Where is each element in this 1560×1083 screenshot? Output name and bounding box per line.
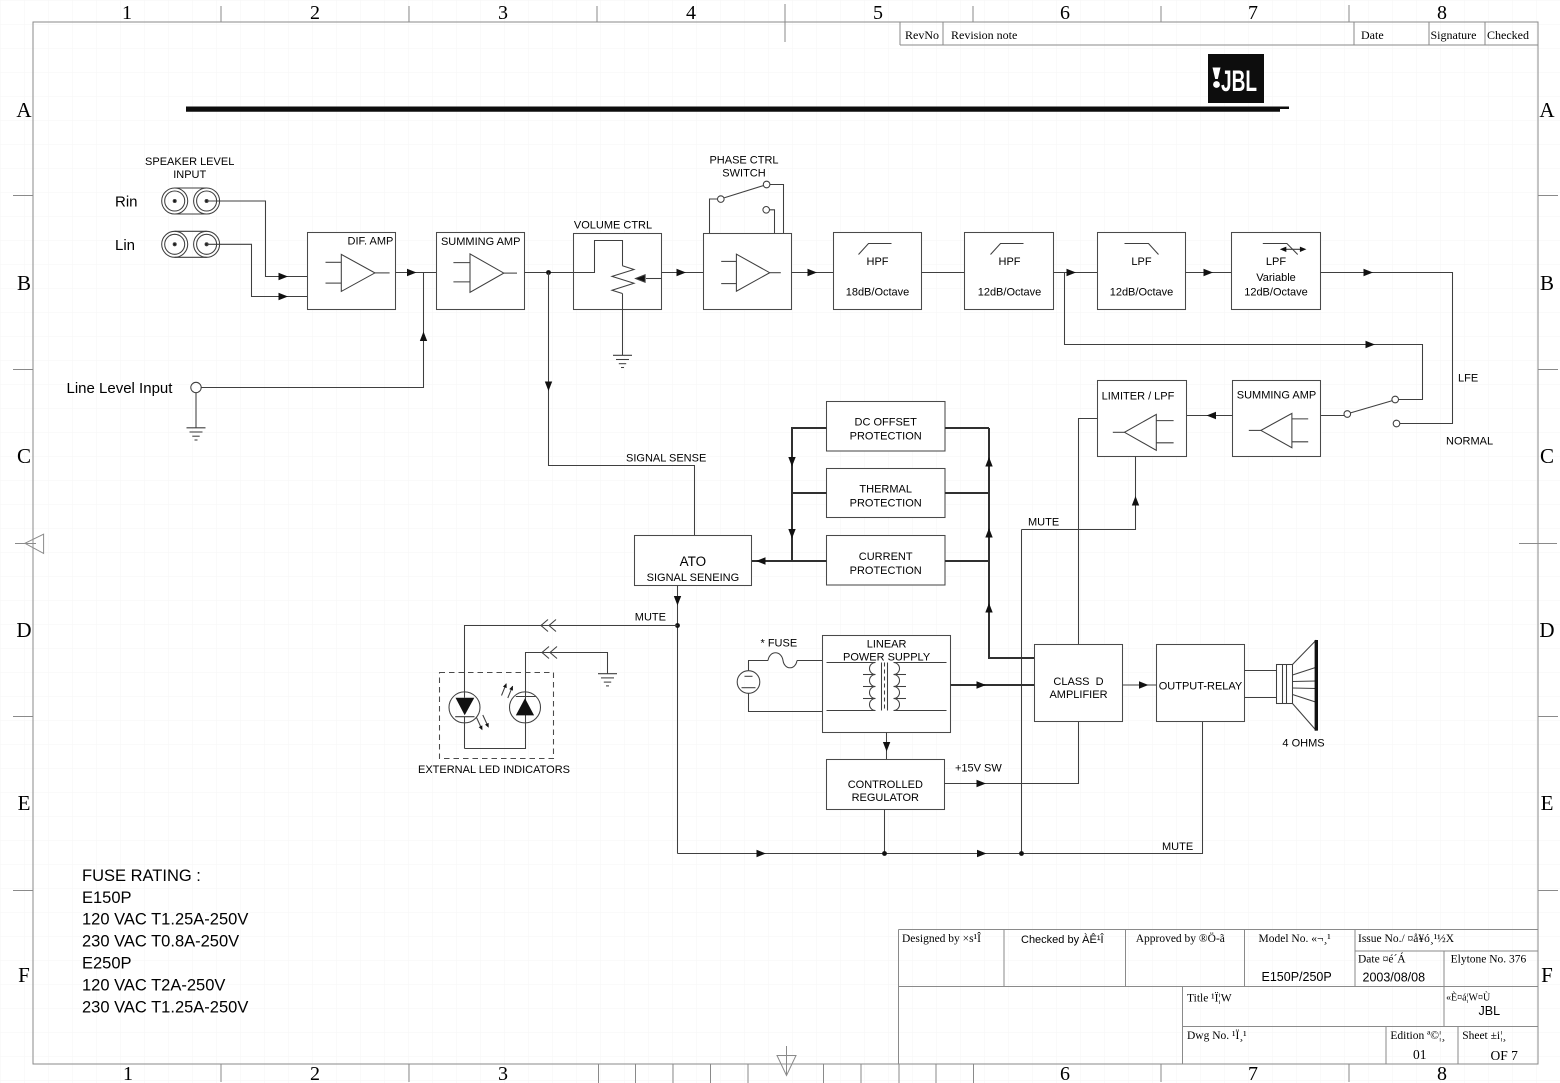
block CURRENT PROTECTION — [827, 536, 946, 586]
wire relay to speaker — [1245, 671, 1277, 698]
svg-text:Checked by ÀÊ¹Î: Checked by ÀÊ¹Î — [1021, 933, 1104, 946]
svg-text:INPUT: INPUT — [173, 169, 206, 181]
svg-text:OUTPUT-RELAY: OUTPUT-RELAY — [1159, 681, 1243, 693]
block SUMMING AMP 2 — [1233, 381, 1321, 457]
svg-text:Signature: Signature — [1431, 28, 1477, 42]
wire +15V SW to CLASS D — [945, 722, 1079, 788]
block THERMAL PROTECTION — [827, 469, 946, 518]
svg-text:E: E — [1541, 791, 1554, 815]
label EXTERNAL LED INDICATORS — [418, 764, 570, 776]
centering mark left triangle — [15, 534, 43, 553]
svg-text:ATO: ATO — [680, 554, 707, 569]
border zone ticks bottom — [221, 1064, 1349, 1083]
wire HPF1 to HPF2 — [922, 272, 965, 274]
block CONTROLLED REGULATOR — [827, 760, 945, 810]
svg-text:120 VAC T2A-250V: 120 VAC T2A-250V — [82, 976, 225, 994]
note FUSE RATING — [82, 867, 248, 1016]
label PHASE CTRL SWITCH — [709, 155, 778, 180]
block OUTPUT-RELAY — [1157, 645, 1245, 722]
LED D2 — [502, 683, 541, 723]
svg-text:120 VAC T1.25A-250V: 120 VAC T1.25A-250V — [82, 911, 248, 929]
svg-text:MUTE: MUTE — [1028, 517, 1059, 529]
row letters left — [16, 98, 32, 987]
switch SW2 LFE/NORMAL — [1321, 396, 1400, 427]
block LPF2 variable — [1232, 233, 1321, 310]
op-amp symbol inside SUMMING AMP — [453, 254, 517, 292]
svg-text:A: A — [1539, 98, 1555, 122]
svg-text:A: A — [16, 98, 32, 122]
label 4 OHMS — [1282, 738, 1324, 750]
svg-text:VOLUME CTRL: VOLUME CTRL — [574, 220, 652, 232]
svg-text:SWITCH: SWITCH — [722, 168, 765, 180]
wire bottom mute bus — [678, 722, 1203, 858]
svg-text:230 VAC T0.8A-250V: 230 VAC T0.8A-250V — [82, 933, 239, 951]
svg-text:MUTE: MUTE — [635, 612, 666, 624]
label Lin — [115, 237, 135, 254]
svg-text:CLASS D: CLASS D — [1053, 676, 1103, 688]
svg-text:1: 1 — [122, 2, 132, 24]
svg-text:+15V SW: +15V SW — [955, 763, 1002, 775]
wire HPF2 branch to LFE contact — [1065, 273, 1423, 400]
wire VOLUME CTRL to PHASE CTRL — [662, 269, 704, 276]
svg-text:Sheet ±i¦¸: Sheet ±i¦¸ — [1462, 1030, 1506, 1042]
svg-text:F: F — [1541, 963, 1553, 987]
block DC OFFSET PROTECTION — [827, 402, 946, 452]
svg-text:2: 2 — [310, 1063, 320, 1083]
node signal junction — [546, 270, 551, 275]
wire MUTE to LED1 — [465, 620, 678, 692]
svg-text:E150P: E150P — [82, 889, 132, 907]
op-amp symbol inside DIF. AMP — [326, 254, 390, 291]
block PHASE CTRL amplifier — [704, 234, 792, 310]
dashed enclosure EXTERNAL LED INDICATORS — [440, 673, 554, 759]
connector RCA pair Lin — [162, 231, 220, 257]
wire protections to ATO — [752, 557, 827, 564]
node regulator bus junction — [882, 851, 887, 856]
block LINEAR POWER SUPPLY — [823, 636, 951, 733]
svg-text:DC OFFSET: DC OFFSET — [855, 417, 918, 429]
centering mark right cross — [1519, 542, 1557, 544]
column numbers bottom — [123, 1063, 1447, 1083]
svg-text:4 OHMS: 4 OHMS — [1282, 738, 1324, 750]
svg-text:NORMAL: NORMAL — [1446, 436, 1493, 448]
wire SUMMING AMP 2 to LIMITER — [1187, 412, 1233, 419]
svg-text:Lin: Lin — [115, 237, 135, 254]
fuse F1 — [749, 653, 823, 671]
svg-text:AMPLIFIER: AMPLIFIER — [1049, 689, 1107, 701]
svg-text:EXTERNAL LED INDICATORS: EXTERNAL LED INDICATORS — [418, 764, 570, 776]
wire regulator to mute bus — [884, 810, 886, 854]
svg-text:SUMMING AMP: SUMMING AMP — [1237, 389, 1316, 401]
svg-text:12dB/Octave: 12dB/Octave — [978, 287, 1042, 299]
svg-text:Issue No./ ¤å¥ó¸¹½X: Issue No./ ¤å¥ó¸¹½X — [1358, 932, 1455, 945]
svg-text:2: 2 — [310, 2, 320, 24]
label SIGNAL SENSE — [626, 453, 706, 465]
border zone ticks top — [221, 4, 1349, 42]
svg-text:OF 7: OF 7 — [1491, 1048, 1519, 1063]
node MUTE junction — [675, 623, 680, 628]
label LFE — [1458, 373, 1478, 385]
label MUTE at ATO — [635, 612, 666, 624]
svg-text:E150P/250P: E150P/250P — [1262, 970, 1332, 984]
svg-text:PROTECTION: PROTECTION — [850, 431, 922, 443]
svg-text:SUMMING AMP: SUMMING AMP — [441, 236, 520, 248]
svg-text:CURRENT: CURRENT — [859, 551, 913, 563]
svg-text:B: B — [17, 271, 31, 295]
wire LPF1 to LPF2 — [1186, 269, 1232, 276]
svg-text:Dwg No. ¹Ï¸¹: Dwg No. ¹Ï¸¹ — [1187, 1028, 1247, 1042]
wire protection right bus to CLASS D — [945, 428, 1035, 658]
svg-text:POWER SUPPLY: POWER SUPPLY — [843, 652, 931, 664]
speaker LS1 — [1277, 640, 1317, 731]
svg-text:4: 4 — [686, 2, 696, 24]
thick header rule — [186, 107, 1289, 112]
wire DIF AMP to SUMMING AMP — [396, 269, 437, 276]
label VOLUME CTRL — [574, 220, 652, 232]
title block texts — [902, 931, 1527, 1063]
wire SIGNAL SENSE from node to ATO — [545, 273, 695, 536]
centering mark bottom triangle — [777, 1046, 796, 1076]
label Rin — [115, 194, 138, 211]
svg-text:PROTECTION: PROTECTION — [850, 498, 922, 510]
wire LIMITER output down to CLASS D input — [1079, 419, 1098, 645]
label MUTE at limiter — [1028, 517, 1059, 529]
svg-text:01: 01 — [1413, 1047, 1427, 1062]
wire Lin to DIF AMP — [207, 244, 308, 300]
svg-text:LPF: LPF — [1131, 256, 1151, 268]
block LIMITER / LPF — [1098, 381, 1187, 457]
ground at LED feed — [598, 674, 617, 686]
svg-text:MUTE: MUTE — [1162, 841, 1193, 853]
svg-text:E: E — [18, 791, 31, 815]
svg-text:8: 8 — [1437, 1063, 1447, 1083]
connector RCA pair Rin — [162, 188, 220, 214]
svg-text:Revision note: Revision note — [951, 28, 1017, 42]
column numbers top — [122, 2, 1447, 24]
wire ATO mute output down — [674, 586, 681, 854]
svg-text:LINEAR: LINEAR — [867, 639, 907, 651]
svg-text:D: D — [1539, 618, 1554, 642]
svg-text:5: 5 — [873, 2, 883, 24]
svg-text:«È¤á¦W¤Ù: «È¤á¦W¤Ù — [1446, 992, 1491, 1004]
arrows on protection right bus — [985, 457, 992, 613]
title block values — [1262, 970, 1501, 1018]
wire LED bottom link — [465, 723, 526, 749]
AC source — [737, 671, 760, 694]
svg-text:Date ¤é´Á: Date ¤é´Á — [1358, 952, 1406, 966]
svg-text:12dB/Octave: 12dB/Octave — [1110, 287, 1174, 299]
revision table — [900, 22, 1538, 45]
border zone ticks left — [13, 196, 33, 891]
revision table headers — [905, 28, 1529, 42]
svg-text:SPEAKER LEVEL: SPEAKER LEVEL — [145, 156, 234, 168]
svg-text:Date: Date — [1361, 28, 1384, 42]
svg-text:Elytone No. 376: Elytone No. 376 — [1451, 954, 1527, 966]
wire MUTE vertical to bottom bus — [1021, 530, 1023, 854]
label +15V SW — [955, 763, 1002, 775]
svg-text:E250P: E250P — [82, 955, 132, 973]
svg-text:PROTECTION: PROTECTION — [850, 565, 922, 577]
svg-text:* FUSE: * FUSE — [761, 638, 798, 650]
switch SW1 phase reverse — [710, 181, 784, 233]
svg-text:CONTROLLED: CONTROLLED — [848, 779, 923, 791]
svg-text:LPF: LPF — [1266, 256, 1286, 268]
svg-text:Approved by ®Ö-ã: Approved by ®Ö-ã — [1136, 931, 1225, 945]
svg-text:Checked: Checked — [1487, 28, 1529, 42]
svg-text:D: D — [16, 618, 31, 642]
svg-text:SIGNAL SENEING: SIGNAL SENEING — [647, 572, 740, 584]
wire PHASE CTRL to HPF1 — [792, 269, 834, 276]
svg-text:RevNo: RevNo — [905, 28, 939, 42]
wire protection left bus — [788, 428, 826, 561]
LED D1 — [449, 692, 489, 749]
terminal Line Level Input — [191, 382, 201, 392]
op-amp symbol inside LIMITER — [1113, 414, 1174, 450]
wire AC source return — [749, 693, 823, 711]
svg-text:PHASE CTRL: PHASE CTRL — [709, 155, 778, 167]
block HPF1 18dB — [834, 233, 922, 310]
svg-text:B: B — [1540, 271, 1554, 295]
svg-text:Line Level Input: Line Level Input — [67, 380, 174, 397]
svg-text:SIGNAL SENSE: SIGNAL SENSE — [626, 453, 706, 465]
ground below VOLUME CTRL — [613, 355, 632, 367]
transformer T1 — [827, 663, 947, 711]
svg-text:Edition ª©¦¸: Edition ª©¦¸ — [1390, 1030, 1445, 1042]
block CLASS D AMPLIFIER — [1035, 645, 1123, 722]
svg-text:HPF: HPF — [867, 256, 889, 268]
svg-text:7: 7 — [1248, 1063, 1258, 1083]
ground at Line Level Input — [187, 393, 206, 440]
block VOLUME CTRL — [574, 234, 662, 310]
block DIF. AMP U1 — [308, 233, 396, 310]
title block lines — [899, 930, 1538, 1065]
svg-text:THERMAL: THERMAL — [859, 484, 912, 496]
svg-text:18dB/Octave: 18dB/Octave — [846, 287, 910, 299]
wire CLASS D to OUTPUT-RELAY — [1123, 681, 1157, 688]
potentiometer inside VOLUME CTRL — [574, 241, 662, 356]
block ATO SIGNAL SENSING — [635, 536, 752, 586]
label * FUSE — [761, 638, 798, 650]
svg-text:3: 3 — [498, 2, 508, 24]
svg-text:LIMITER / LPF: LIMITER / LPF — [1102, 390, 1175, 402]
svg-text:DIF. AMP: DIF. AMP — [348, 236, 394, 248]
svg-text:230 VAC T1.25A-250V: 230 VAC T1.25A-250V — [82, 998, 248, 1016]
wire SUMMING AMP to VOLUME CTRL — [525, 272, 574, 274]
svg-text:F: F — [18, 963, 30, 987]
block LPF1 12dB — [1098, 233, 1186, 310]
wire HPF2 to LPF1 — [1054, 269, 1098, 276]
border zone ticks right — [1538, 196, 1558, 891]
wire Rin to DIF AMP — [207, 201, 308, 280]
label SPEAKER LEVEL INPUT — [145, 156, 234, 181]
wire LPS to regulator — [883, 733, 890, 760]
JBL logo — [1208, 54, 1264, 103]
block SUMMING AMP U2 — [437, 233, 525, 310]
row letters right — [1539, 98, 1555, 987]
svg-text:Variable: Variable — [1256, 272, 1296, 284]
wire LPS to CLASS D — [951, 681, 1035, 688]
svg-text:REGULATOR: REGULATOR — [852, 792, 919, 804]
svg-text:7: 7 — [1248, 2, 1258, 24]
svg-text:C: C — [17, 444, 31, 468]
svg-text:6: 6 — [1060, 2, 1070, 24]
svg-text:8: 8 — [1437, 2, 1447, 24]
svg-text:1: 1 — [123, 1063, 133, 1083]
label MUTE at bus — [1162, 841, 1193, 853]
svg-text:HPF: HPF — [999, 256, 1021, 268]
svg-text:Title ¹Ï¦W: Title ¹Ï¦W — [1187, 991, 1232, 1005]
svg-text:LFE: LFE — [1458, 373, 1478, 385]
wire Line Level Input up to signal node — [201, 273, 427, 388]
svg-text:C: C — [1540, 444, 1554, 468]
svg-text:3: 3 — [498, 1063, 508, 1083]
svg-text:Designed by ×s¹Î: Designed by ×s¹Î — [902, 931, 981, 945]
svg-text:JBL: JBL — [1221, 65, 1257, 98]
label NORMAL — [1446, 436, 1493, 448]
wire LPF2 output to NORMAL contact — [1321, 269, 1453, 424]
block HPF2 12dB — [965, 233, 1054, 310]
node mute bus junction — [1019, 851, 1024, 856]
svg-text:JBL: JBL — [1479, 1004, 1501, 1018]
svg-text:Model No. «¬¸¹: Model No. «¬¸¹ — [1259, 933, 1332, 945]
svg-text:FUSE RATING :: FUSE RATING : — [82, 867, 201, 885]
wire ground to LED2 — [526, 647, 608, 692]
svg-text:2003/08/08: 2003/08/08 — [1363, 971, 1426, 985]
op-amp symbol inside PHASE CTRL — [721, 254, 781, 291]
svg-text:6: 6 — [1060, 1063, 1070, 1083]
op-amp symbol inside SUMMING AMP 2 — [1249, 413, 1308, 447]
svg-text:Rin: Rin — [115, 194, 138, 211]
wire MUTE into LIMITER — [1022, 457, 1140, 530]
label Line Level Input — [67, 380, 174, 397]
svg-text:12dB/Octave: 12dB/Octave — [1244, 287, 1308, 299]
